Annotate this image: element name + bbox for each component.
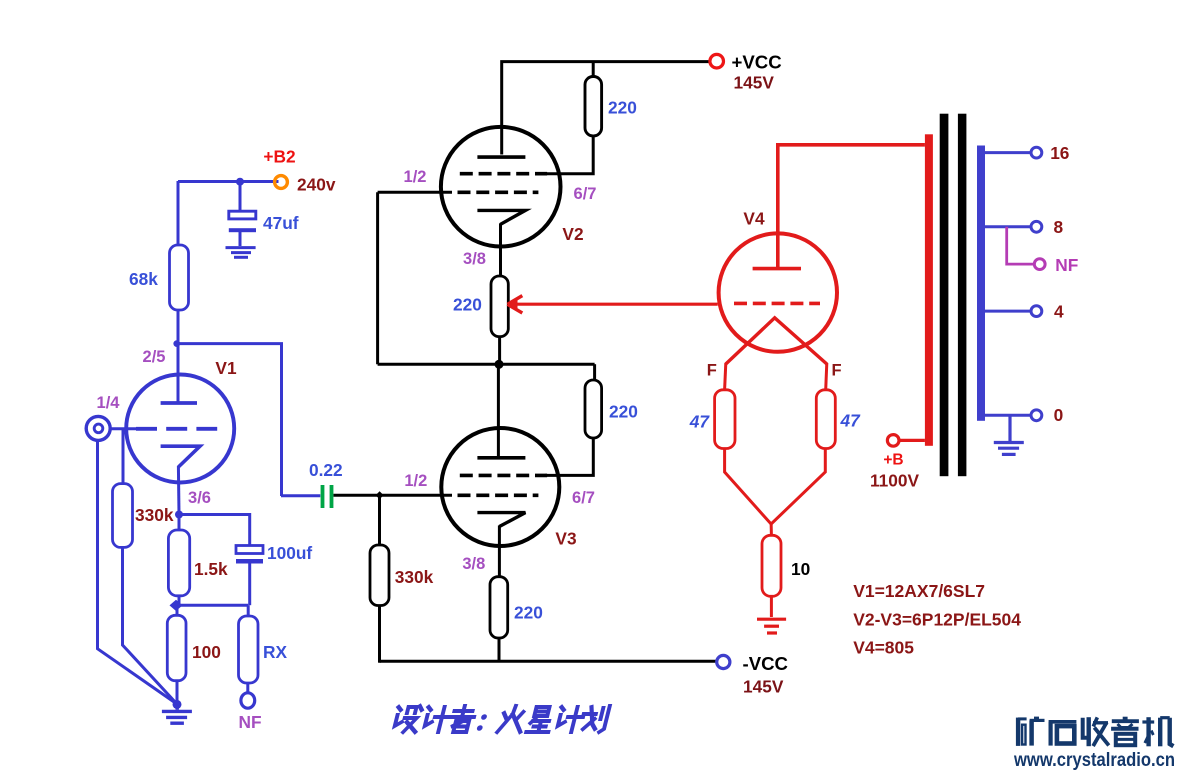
- wire 1.5k bottom lead: [178, 596, 181, 605]
- ground (V1 cathode): [162, 704, 192, 723]
- resistor 220 (V3 anode): [585, 380, 602, 438]
- wire 10 top lead: [770, 522, 773, 535]
- glyph kuang: [1018, 718, 1045, 746]
- svg-text:330k: 330k: [135, 505, 174, 525]
- svg-text:4: 4: [1054, 301, 1064, 321]
- svg-text:V1: V1: [215, 358, 237, 378]
- resistor 100: [167, 615, 186, 680]
- wire filament left lead: [725, 363, 726, 390]
- glyph 者: [447, 706, 476, 732]
- wire mid horizontal: [378, 363, 595, 366]
- svg-text:240v: 240v: [297, 175, 336, 195]
- svg-text:145V: 145V: [743, 677, 784, 697]
- svg-text:1.5k: 1.5k: [194, 559, 228, 579]
- transistor V3 tube envelope: [441, 428, 559, 546]
- node arrowhead at 220: [508, 296, 523, 313]
- V4 grid (dashed): [734, 302, 820, 306]
- terminal +B: [887, 435, 899, 447]
- V2 grid 2 (dashed): [458, 191, 539, 195]
- ground (10 resistor, red): [757, 619, 786, 633]
- wire feedback drop (1/2 to node): [376, 192, 379, 364]
- capacitor 0.22 (green): [281, 485, 333, 508]
- capacitor 47uf: [229, 211, 256, 246]
- wire 68k bottom to plate: [177, 310, 180, 402]
- terminal NF (bottom): [241, 693, 255, 708]
- resistor 220 (V2 cathode): [491, 276, 508, 337]
- wire RX top lead: [247, 605, 250, 616]
- wire +B2 horizontal: [178, 180, 279, 183]
- terminal 16: [1031, 147, 1042, 158]
- svg-text:0: 0: [1054, 405, 1064, 425]
- glyph shi: [1049, 722, 1077, 746]
- V3 anode plate: [477, 456, 525, 460]
- node junction at 47uf top: [236, 178, 244, 186]
- node 2/5 junction: [173, 340, 180, 347]
- wire 47uf drop: [239, 182, 242, 212]
- wire +VCC rail: [502, 62, 711, 155]
- transistor V2 tube envelope: [441, 127, 561, 247]
- resistor 330k (input): [113, 484, 133, 548]
- wire 47 right to node: [771, 449, 825, 525]
- wire V1 cathode lead: [177, 466, 181, 515]
- wire terminal to grid: [111, 427, 137, 430]
- resistor 47 (right): [816, 390, 835, 449]
- op V1 tube envelope: [126, 375, 234, 483]
- svg-text:220: 220: [609, 402, 638, 422]
- svg-text:3/8: 3/8: [463, 250, 486, 268]
- V4 anode plate: [753, 267, 801, 271]
- wire V2 cathode lead: [499, 223, 502, 276]
- transformer primary winding (red bar): [925, 134, 933, 446]
- wire input drop A: [98, 441, 176, 704]
- terminal NF (purple): [1034, 259, 1045, 270]
- svg-text:100: 100: [192, 642, 221, 662]
- transistor V4 tube envelope: [719, 233, 837, 351]
- wire to coupling cap (top run): [178, 344, 282, 496]
- terminal 0: [1031, 410, 1042, 421]
- wire 100 bottom lead: [176, 681, 179, 705]
- ground (below 47uf): [226, 248, 256, 258]
- glyph 火: [497, 706, 526, 732]
- V1 grid (dashed): [136, 427, 217, 431]
- svg-text:V3: V3: [555, 529, 576, 549]
- svg-text:3/6: 3/6: [188, 489, 211, 507]
- wire 1.5k top lead: [178, 515, 181, 531]
- V2 grid 1 (dashed): [460, 172, 547, 176]
- wire filament right lead: [826, 363, 827, 390]
- wire 330k top lead: [378, 495, 381, 545]
- wire 220 bottom to 6/7: [545, 136, 593, 174]
- wire 100 top lead: [176, 605, 179, 615]
- wire cathode bias row: [176, 604, 248, 607]
- wire V3 plate lead: [497, 364, 500, 458]
- node 3/6 junction: [175, 511, 183, 519]
- resistor 10: [762, 535, 781, 596]
- svg-text:47: 47: [689, 412, 711, 432]
- V2 anode plate: [477, 155, 525, 159]
- svg-text:F: F: [707, 362, 717, 380]
- svg-text:-VCC: -VCC: [743, 653, 788, 674]
- svg-text:V1=12AX7/6SL7: V1=12AX7/6SL7: [853, 581, 985, 601]
- svg-text:47uf: 47uf: [263, 213, 299, 233]
- wire 3/6 to 100uf: [179, 515, 250, 546]
- node V3 grid junction: [376, 491, 384, 499]
- wire V4 anode to primary: [778, 145, 925, 269]
- svg-text:V4: V4: [743, 209, 765, 229]
- V3 grid 1 (dashed): [460, 474, 547, 478]
- svg-text:1/4: 1/4: [97, 394, 121, 412]
- svg-text:1100V: 1100V: [870, 471, 919, 491]
- wire 0.22 to V3 grid: [334, 494, 453, 497]
- wire RX to NF terminal: [246, 683, 249, 694]
- svg-text:145V: 145V: [734, 73, 775, 93]
- wire 68k top: [177, 181, 180, 245]
- wire V3 cathode lead: [498, 526, 501, 577]
- svg-text:0.22: 0.22: [309, 460, 343, 480]
- capacitor 100uf: [236, 546, 263, 606]
- terminal input 1/4 (double ring): [86, 416, 110, 440]
- glyph shou: [1083, 717, 1109, 746]
- resistor 220 (V2 anode): [585, 77, 602, 136]
- resistor 47 (left): [715, 390, 735, 449]
- svg-text:68k: 68k: [129, 269, 158, 289]
- ground (secondary 0 tap): [994, 415, 1024, 454]
- svg-text:V2-V3=6P12P/EL504: V2-V3=6P12P/EL504: [853, 610, 1021, 630]
- svg-text:V4=805: V4=805: [853, 638, 914, 658]
- glyph 计 (1st): [422, 707, 452, 732]
- glyph ：: [476, 714, 487, 731]
- terminal 4: [1031, 306, 1042, 317]
- resistor 220 (V3 cathode): [490, 577, 508, 638]
- terminal -VCC: [717, 655, 730, 668]
- svg-text:16: 16: [1050, 143, 1069, 163]
- svg-text:220: 220: [608, 98, 637, 118]
- glyph 设: [392, 706, 422, 732]
- terminal 8: [1031, 221, 1042, 232]
- transformer secondary winding (blue bar): [977, 146, 985, 421]
- wire tap 8: [985, 225, 1031, 228]
- svg-text:NF: NF: [238, 712, 261, 732]
- glyph 计 (2nd): [555, 707, 585, 732]
- designer caption 设计者：火星计划 (hand-drawn glyphs): [392, 706, 609, 732]
- svg-text:+B: +B: [883, 452, 903, 469]
- svg-text:6/7: 6/7: [572, 489, 595, 507]
- svg-text:RX: RX: [263, 642, 287, 662]
- node bias junction (diamond): [170, 600, 183, 611]
- svg-text:220: 220: [453, 295, 482, 315]
- svg-text:1/2: 1/2: [404, 472, 427, 490]
- wire 220 anode top lead: [592, 62, 595, 77]
- svg-text:NF: NF: [1055, 255, 1078, 275]
- V1 cathode: [161, 446, 200, 467]
- svg-text:10: 10: [791, 559, 810, 579]
- V4 filament: [726, 318, 827, 364]
- wire tap 0: [985, 414, 1031, 417]
- glyph ji: [1142, 717, 1173, 746]
- svg-text:100uf: 100uf: [267, 543, 312, 563]
- svg-text:+VCC: +VCC: [732, 52, 782, 73]
- terminal +VCC: [710, 54, 724, 68]
- wire tap 16: [985, 151, 1031, 154]
- resistor 1.5k: [168, 530, 189, 596]
- svg-text:F: F: [831, 362, 841, 380]
- V1 anode plate: [161, 401, 197, 405]
- svg-text:47: 47: [840, 411, 862, 431]
- wire 330k bottom lead: [378, 606, 381, 663]
- svg-text:6/7: 6/7: [574, 185, 597, 203]
- wire V2 cathode res bottom: [498, 337, 501, 365]
- wire 330k bottom diagonal: [123, 547, 177, 703]
- svg-text:8: 8: [1054, 217, 1064, 237]
- svg-text:+B2: +B2: [263, 147, 295, 167]
- wire -VCC rail: [498, 638, 501, 661]
- wire 47 left to node: [725, 449, 772, 525]
- wire drive arrow line (to V2 220): [514, 303, 718, 306]
- resistor 330k (V3 grid): [370, 545, 389, 606]
- svg-text:3/8: 3/8: [462, 555, 485, 573]
- wire +B to primary: [899, 439, 925, 442]
- transformer core (black bars): [940, 114, 967, 477]
- svg-text:330k: 330k: [395, 567, 434, 587]
- node ground junction: [173, 700, 182, 709]
- svg-text:2/5: 2/5: [143, 348, 166, 366]
- wire grid drop B: [122, 429, 125, 484]
- wire tap 4: [985, 310, 1031, 313]
- V3 grid 2 (dashed): [458, 493, 539, 497]
- V3 cathode: [477, 513, 525, 527]
- glyph 划: [579, 706, 609, 732]
- resistor 68k: [170, 245, 189, 310]
- wire V2 grid2 left: [378, 191, 452, 194]
- wire 220 (V3 anode) top lead: [593, 364, 596, 380]
- glyph yin: [1111, 718, 1139, 745]
- svg-text:www.crystalradio.cn: www.crystalradio.cn: [1013, 750, 1175, 771]
- wire NF tap (purple): [1007, 227, 1034, 264]
- svg-text:V2: V2: [562, 224, 583, 244]
- wire 220 bottom to V3 6/7: [545, 438, 593, 475]
- svg-text:220: 220: [514, 603, 543, 623]
- watermark logo ç¿ç³æ¶é³æº (hand-drawn glyphs): [1018, 717, 1174, 746]
- glyph 星: [526, 707, 554, 732]
- node mid junction: [495, 360, 504, 369]
- V2 cathode: [477, 210, 525, 224]
- resistor RX: [239, 616, 259, 683]
- terminal +B2 (orange): [275, 176, 288, 189]
- svg-text:1/2: 1/2: [404, 168, 427, 186]
- wire 10 bottom lead: [770, 596, 773, 617]
